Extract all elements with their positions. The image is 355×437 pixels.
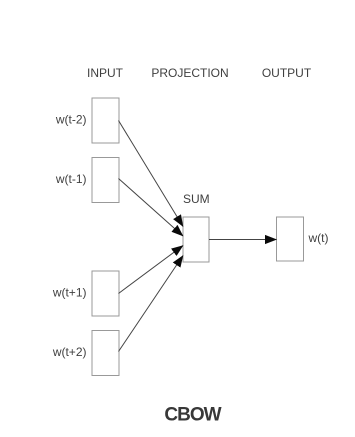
arrow from SUM to output w(t) — [209, 239, 277, 241]
node box w(t) (output) — [277, 217, 304, 261]
svg-text:w(t): w(t) — [308, 231, 329, 245]
arrow from w(t-2) to SUM — [119, 121, 184, 227]
svg-text:w(t-1): w(t-1) — [55, 172, 87, 186]
node box w(t-2) — [92, 98, 119, 143]
svg-text:OUTPUT: OUTPUT — [262, 66, 312, 80]
arrow from w(t+2) to SUM — [119, 256, 184, 352]
node box w(t+1) — [92, 271, 119, 316]
node box w(t-1) — [92, 158, 119, 203]
svg-text:w(t-2): w(t-2) — [55, 113, 87, 127]
svg-text:CBOW: CBOW — [164, 405, 221, 426]
svg-text:INPUT: INPUT — [87, 66, 124, 80]
svg-text:w(t+1): w(t+1) — [52, 286, 87, 300]
node box w(t+2) — [92, 331, 119, 376]
arrow from w(t-1) to SUM — [119, 179, 184, 237]
node box SUM (projection layer) — [183, 217, 209, 262]
svg-text:SUM: SUM — [183, 192, 210, 206]
svg-text:PROJECTION: PROJECTION — [151, 66, 228, 80]
arrow from w(t+1) to SUM — [119, 246, 184, 294]
svg-text:w(t+2): w(t+2) — [52, 345, 87, 359]
